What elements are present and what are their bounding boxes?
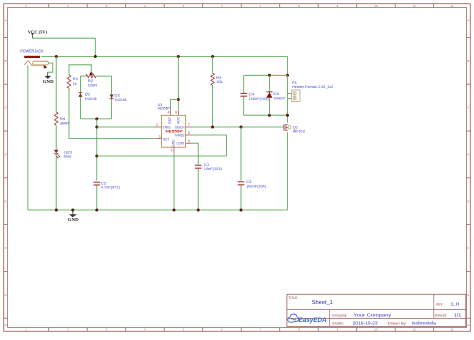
svg-text:REV:: REV:	[436, 302, 443, 306]
svg-text:8: 8	[175, 110, 177, 114]
svg-text:GND: GND	[68, 217, 79, 222]
svg-text:3: 3	[159, 135, 161, 139]
wire rail corner down	[287, 57, 289, 76]
wire diode box bottom edge	[80, 118, 111, 120]
ground symbol bottom	[68, 210, 79, 222]
svg-text:G: G	[467, 293, 469, 297]
svg-text:1N4148: 1N4148	[114, 98, 126, 102]
wire LED1 to ground rail	[55, 154, 57, 210]
wire box bottom edge	[244, 114, 288, 116]
U1 pin 4 stub	[168, 110, 171, 116]
svg-text:2019-10-23: 2019-10-23	[353, 321, 379, 326]
wire C3 to ground rail	[240, 185, 242, 210]
svg-text:TITLE:: TITLE:	[288, 295, 298, 300]
wire VCC to rail	[33, 38, 96, 56]
svg-text:100nF(104): 100nF(104)	[246, 184, 267, 188]
svg-text:D: D	[467, 153, 469, 157]
svg-text:Date:: Date:	[332, 322, 344, 326]
wire diode box left edge	[79, 76, 81, 119]
svg-text:TRIG: TRIG	[163, 125, 171, 129]
svg-text:2: 2	[156, 123, 158, 127]
junction box top D3	[268, 74, 271, 77]
svg-text:C3: C3	[246, 180, 252, 184]
svg-text:VCC: VCC	[176, 116, 180, 124]
svg-text:6: 6	[188, 131, 190, 135]
svg-text:RST: RST	[168, 117, 172, 124]
svg-text:10: 10	[374, 328, 378, 332]
svg-text:GND: GND	[172, 139, 176, 147]
svg-text:100R: 100R	[88, 84, 98, 88]
wire THRES loop	[97, 135, 227, 156]
svg-text:C: C	[5, 106, 7, 110]
ground symbol at jack	[43, 72, 55, 84]
svg-text:blue: blue	[64, 155, 72, 159]
junction gnd tap	[71, 209, 74, 212]
EasyEDA logo	[288, 314, 327, 324]
wire R1 top loop	[69, 65, 91, 75]
capacitor C2	[94, 182, 121, 190]
U1 pin 7 stub	[186, 123, 193, 127]
wire ground rail	[28, 209, 288, 211]
title block grid	[287, 294, 466, 326]
U1 pin 2 stub	[155, 123, 161, 127]
junction rail-U1	[177, 55, 180, 58]
svg-text:F: F	[5, 246, 7, 250]
svg-text:CONT: CONT	[177, 142, 185, 146]
svg-text:Your Company: Your Company	[353, 312, 392, 317]
junction thres	[95, 155, 98, 158]
U1 pin 3 stub	[155, 135, 161, 139]
diode D3	[266, 92, 285, 101]
junction loop-R2	[90, 72, 93, 75]
svg-text:G: G	[5, 293, 7, 297]
junction rail-R4	[55, 55, 58, 58]
title block Sheet num	[435, 312, 462, 317]
wire top VCC rail	[41, 56, 287, 58]
title block Date row	[332, 321, 436, 326]
transistor Q1	[284, 124, 305, 133]
svg-text:11: 11	[413, 328, 416, 332]
wire RST hook	[171, 100, 179, 110]
LED LED1	[54, 150, 73, 159]
svg-text:H: H	[5, 323, 7, 327]
svg-text:VCC (5V): VCC (5V)	[28, 29, 48, 34]
wire header vertical	[287, 75, 289, 123]
title block Company	[332, 312, 392, 317]
wire D3 vertical	[268, 75, 270, 115]
header P1	[292, 81, 334, 102]
junction gnd LED	[55, 209, 58, 212]
resistor R1	[67, 75, 78, 88]
wire R3 top	[212, 57, 214, 74]
svg-text:Sheet:: Sheet:	[435, 313, 448, 317]
svg-text:Isobreviela: Isobreviela	[412, 321, 437, 326]
svg-text:R2: R2	[88, 79, 94, 83]
resistor R3	[211, 73, 223, 85]
junction gnd C1	[197, 209, 200, 212]
svg-text:12: 12	[450, 4, 454, 8]
svg-text:360R: 360R	[60, 121, 70, 125]
svg-text:R1: R1	[73, 77, 79, 81]
wire DISCH to gate	[192, 126, 283, 128]
diode D2	[110, 94, 127, 102]
svg-text:DISCH: DISCH	[175, 125, 185, 129]
svg-text:1: 1	[171, 148, 173, 152]
junction gnd C2	[95, 209, 98, 212]
svg-text:1N4007: 1N4007	[273, 96, 285, 100]
svg-text:H: H	[467, 323, 469, 327]
junction trig	[95, 126, 98, 129]
junction box bottom	[95, 117, 98, 120]
svg-text:7: 7	[188, 123, 190, 127]
svg-text:F: F	[468, 246, 470, 250]
wire Q1 source down	[287, 132, 289, 210]
junction box bottom D3	[268, 114, 271, 117]
svg-text:C: C	[467, 106, 469, 110]
resistor R4	[54, 112, 69, 125]
wire U1 GND down	[173, 153, 175, 210]
svg-text:THRES: THRES	[175, 133, 185, 137]
junction disch-C3	[240, 126, 243, 129]
svg-text:B: B	[5, 59, 7, 63]
wire P1 pin2 stub	[288, 97, 292, 99]
svg-text:1k: 1k	[73, 82, 77, 86]
svg-text:10: 10	[374, 4, 378, 8]
svg-text:1/1: 1/1	[454, 312, 462, 317]
U1 pin 1 stub	[171, 147, 174, 153]
title block REV	[436, 301, 460, 306]
svg-text:12: 12	[450, 328, 454, 332]
svg-text:C4: C4	[249, 93, 255, 97]
wire box top edge	[244, 74, 288, 76]
junction drain	[286, 114, 289, 117]
junction rail-VCCfeed	[94, 55, 97, 58]
wire R3 bottom	[212, 85, 214, 127]
svg-text:A: A	[467, 19, 469, 23]
junction rail-R3	[211, 55, 214, 58]
svg-text:Drawn By:: Drawn By:	[388, 322, 407, 326]
power jack J1 body	[24, 61, 48, 69]
wire trig node vertical	[96, 119, 98, 181]
border tick marks and zone labels	[48, 4, 50, 8]
svg-text:D: D	[5, 153, 7, 157]
wire diode box top-left	[80, 75, 85, 77]
wire R4 branch upper	[55, 57, 57, 113]
wire jack sleeve loop	[48, 63, 53, 72]
svg-text:R4: R4	[60, 117, 66, 121]
wire diode box top-right	[96, 75, 111, 77]
U1 pin 5 stub	[186, 139, 193, 143]
svg-text:Header-Female-2.54_1x2: Header-Female-2.54_1x2	[292, 85, 333, 89]
svg-text:A: A	[5, 19, 7, 23]
svg-text:E: E	[467, 199, 469, 203]
wire C3 branch upper	[240, 127, 242, 181]
U1 reference labels	[158, 103, 170, 111]
junction gnd U1	[173, 209, 176, 212]
wire diode box right edge	[111, 76, 113, 119]
svg-text:Company:: Company:	[332, 313, 348, 317]
power jack J1 pin bar	[24, 56, 40, 58]
U1 pin 6 stub	[186, 131, 193, 135]
wire P1 pin1 stub	[288, 93, 292, 95]
U1 pin 8 stub	[175, 110, 178, 116]
wire box left lower	[243, 97, 245, 115]
wire U1 VCC up to rail	[177, 57, 179, 110]
capacitor C3	[238, 180, 267, 188]
junction disch-R3	[211, 126, 214, 129]
op-amp U1 NE555P body	[162, 115, 186, 147]
svg-text:11: 11	[413, 4, 416, 8]
wire R1 to OUT	[69, 88, 155, 138]
wire CONT to C1	[192, 143, 198, 164]
svg-text:5: 5	[188, 139, 190, 143]
capacitor C4	[240, 93, 269, 101]
svg-text:4.7nF(471): 4.7nF(471)	[101, 186, 121, 190]
junction U1 rst-vcc	[177, 98, 180, 101]
svg-text:10k: 10k	[216, 80, 223, 84]
wire TRIG to U1	[97, 126, 155, 128]
svg-text:1N4148: 1N4148	[85, 97, 97, 101]
svg-text:POWERJACK: POWERJACK	[20, 48, 43, 53]
wire box left upper	[243, 75, 245, 93]
svg-text:100nF(104): 100nF(104)	[249, 97, 270, 101]
svg-text:E: E	[5, 199, 7, 203]
svg-text:OUT: OUT	[163, 138, 169, 142]
svg-text:1.0: 1.0	[450, 301, 460, 306]
diode D1	[78, 93, 96, 101]
wire jack center pin down	[27, 65, 29, 210]
svg-text:B: B	[467, 59, 469, 63]
wire C1 to ground rail	[197, 169, 199, 210]
junction gnd C3	[240, 209, 243, 212]
VCC power symbol	[31, 33, 35, 38]
svg-text:IRF510: IRF510	[293, 129, 306, 133]
wire C2 to ground rail	[96, 185, 98, 210]
junction box top-right	[286, 74, 289, 77]
capacitor C1	[195, 163, 223, 171]
svg-text:4: 4	[168, 110, 170, 114]
svg-text:10nF(103): 10nF(103)	[204, 167, 223, 171]
svg-text:GND: GND	[43, 79, 55, 84]
svg-text:Sheet_1: Sheet_1	[312, 300, 333, 306]
svg-text:EasyEDA: EasyEDA	[299, 317, 327, 324]
wire R4 to LED1	[55, 125, 57, 150]
resistor R2	[86, 74, 98, 87]
